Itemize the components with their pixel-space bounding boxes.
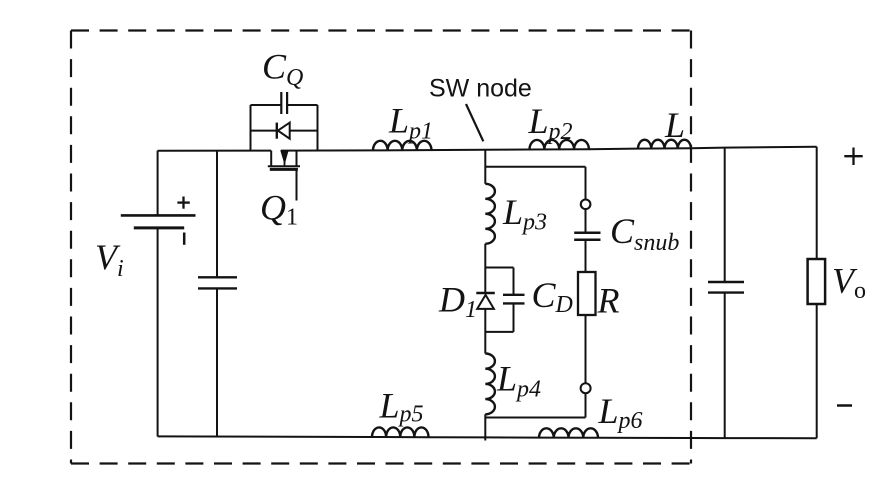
wire bottom rail	[158, 436, 817, 438]
snubber wire to Csnub	[585, 209, 587, 232]
wire top rail right section	[281, 147, 817, 151]
body diode cathode bar	[276, 123, 278, 139]
capacitor output branch wire upper	[724, 148, 726, 282]
inductor Lp5	[372, 427, 428, 437]
capacitor CD plates	[503, 295, 525, 304]
svg-text:Q1: Q1	[260, 188, 298, 231]
svg-text:Vo: Vo	[832, 261, 866, 305]
svg-text:CQ: CQ	[262, 47, 303, 92]
wire right branch lower	[816, 304, 818, 438]
CD loop bottom edge wire	[485, 331, 513, 333]
diode D1 triangle	[477, 295, 494, 309]
wire middle vertical to bottom rail	[484, 414, 486, 440]
Q1 gate bar	[270, 168, 298, 171]
body-diode loop left vertical wire	[250, 105, 252, 151]
battery plus sign	[177, 197, 189, 209]
Q1 source stub	[270, 151, 272, 167]
svg-text:SW node: SW node	[429, 75, 532, 103]
wire left branch upper	[157, 151, 159, 216]
capacitor CQ plates	[281, 92, 287, 114]
Q1 drain stub	[296, 151, 298, 167]
svg-text:Lp5: Lp5	[379, 386, 424, 428]
capacitor input branch wire upper	[216, 151, 218, 278]
svg-text:Lp3: Lp3	[502, 192, 547, 236]
inductor Lp4	[485, 354, 495, 415]
wire snubber feed	[485, 166, 585, 168]
Q1 channel bar	[268, 165, 300, 167]
snubber wire R to circle	[585, 315, 587, 383]
snubber wire bottom	[585, 393, 587, 417]
svg-text:R: R	[597, 281, 620, 321]
capacitor input plates	[198, 277, 237, 288]
voltage source Vi battery long plate	[121, 214, 196, 217]
svg-text:L: L	[664, 105, 685, 145]
Q1 body arrow	[281, 151, 288, 163]
wire left branch lower	[157, 228, 159, 437]
inductor Lp6	[539, 428, 598, 437]
svg-text:CD: CD	[532, 275, 573, 318]
snubber branch wire top	[585, 167, 587, 199]
resistor R box	[578, 272, 596, 315]
svg-text:Lp1: Lp1	[388, 101, 433, 145]
resistor Vo load box	[808, 259, 826, 304]
Q1 gate lead	[296, 169, 298, 200]
CD loop top edge wire	[485, 267, 513, 269]
SW node pointer line	[466, 104, 483, 141]
inductor Lp3	[485, 184, 495, 244]
inductor Lp1	[373, 141, 431, 151]
body diode triangle	[278, 123, 290, 139]
capacitor output branch wire lower	[724, 293, 726, 439]
body-diode branch wires	[251, 130, 277, 132]
wire middle vertical above D1	[484, 244, 486, 293]
wire middle vertical below D1	[484, 309, 486, 354]
wire top rail left section	[158, 150, 272, 152]
body-diode loop right vertical wire	[317, 105, 319, 151]
svg-text:D1: D1	[438, 280, 477, 324]
wire right branch upper	[816, 147, 818, 259]
CD loop right vertical wires	[513, 268, 515, 295]
battery minus tick	[183, 233, 186, 245]
capacitor output plates	[708, 282, 744, 293]
svg-text:Vi: Vi	[95, 237, 124, 282]
terminal circle snubber top	[581, 200, 591, 210]
output plus sign	[844, 148, 862, 166]
terminal circle snubber bottom	[581, 383, 591, 393]
output minus sign	[837, 404, 852, 407]
body-diode loop top edge wires	[251, 104, 282, 106]
svg-text:Csnub: Csnub	[610, 211, 679, 256]
transistor Q1	[268, 151, 300, 201]
voltage source Vi battery short plate	[134, 226, 184, 229]
svg-text:Lp4: Lp4	[496, 359, 541, 403]
dashed converter boundary	[71, 31, 691, 464]
diode D1 cathode bar	[476, 292, 495, 295]
capacitor Csnub plates	[574, 233, 600, 240]
wire snubber bottom connect	[485, 417, 585, 419]
node SW vertical wire	[484, 150, 486, 184]
snubber wire Csnub to R	[585, 240, 587, 272]
svg-text:Lp6: Lp6	[598, 391, 643, 434]
svg-text:Lp2: Lp2	[528, 101, 573, 145]
inductor Lp2	[530, 140, 589, 150]
inductor L	[638, 140, 691, 149]
capacitor input branch wire lower	[216, 288, 218, 436]
